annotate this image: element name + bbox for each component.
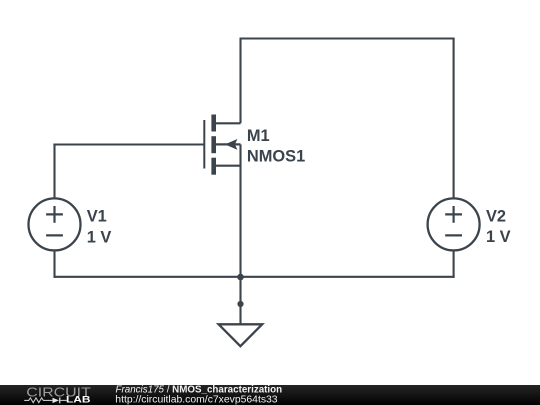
svg-text:V1: V1 (87, 208, 107, 226)
svg-text:NMOS1: NMOS1 (247, 148, 305, 166)
voltage source V1 (29, 198, 81, 250)
svg-text:V2: V2 (486, 208, 506, 226)
svg-text:M1: M1 (247, 127, 270, 145)
svg-text:1 V: 1 V (486, 228, 511, 246)
wire (239, 39, 241, 124)
wire (453, 250, 455, 277)
wire (53, 250, 55, 277)
footer bar (0, 385, 540, 405)
junction dot (237, 274, 244, 281)
wire (239, 144, 241, 276)
wire (453, 39, 455, 199)
wire (53, 143, 203, 145)
wire (54, 276, 455, 278)
svg-text:1 V: 1 V (87, 229, 112, 247)
svg-text:http://circuitlab.com/c7xevp56: http://circuitlab.com/c7xevp564ts33 (115, 394, 278, 405)
wire (240, 37, 455, 39)
wire (239, 277, 241, 304)
ground (219, 301, 263, 346)
wire (53, 144, 55, 199)
transistor M1 (203, 115, 240, 175)
svg-text:LAB: LAB (66, 394, 91, 404)
logo resistor-diode (24, 398, 67, 404)
voltage source V2 (428, 198, 480, 250)
